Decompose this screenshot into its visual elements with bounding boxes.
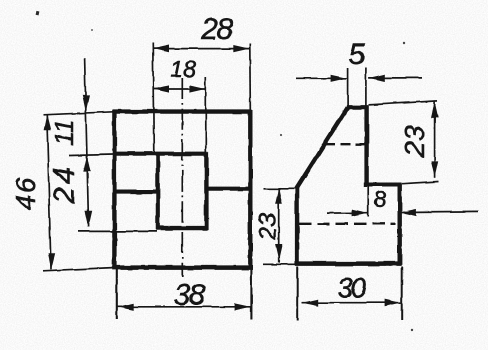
centerline of front view (dash-dot) bbox=[181, 78, 183, 277]
svg-text:38: 38 bbox=[174, 279, 206, 312]
extension line top left for 23 left bbox=[264, 188, 296, 190]
extension line left for 28/18 bbox=[153, 43, 154, 153]
arrowhead 11 down bbox=[82, 95, 89, 111]
scan speck top left bbox=[36, 11, 40, 16]
extension line left for 38 bbox=[116, 269, 118, 320]
front view: inner rectangle left edge bbox=[156, 152, 160, 229]
extension line right for 18 bbox=[205, 77, 207, 152]
dimension line 23 left bbox=[278, 188, 280, 263]
extension line bottom-left for 46 bbox=[43, 268, 113, 271]
extension line right for 5 bbox=[365, 68, 367, 106]
arrowhead 23 left down bbox=[275, 245, 282, 261]
dimension line 30 bbox=[302, 302, 401, 304]
arrowhead 18 left bbox=[153, 85, 169, 92]
extension line left for 30 bbox=[297, 267, 299, 321]
side view: bottom edge bbox=[296, 261, 402, 266]
arrowhead 28 right bbox=[233, 45, 249, 52]
dimension line 5 right tail bbox=[369, 77, 422, 79]
hidden edge lower (dashed) bbox=[299, 223, 396, 225]
svg-text:18: 18 bbox=[170, 56, 196, 82]
front view: right step edge bbox=[206, 187, 252, 191]
side view: left edge bbox=[295, 188, 299, 266]
extension line left for 24 bottom bbox=[78, 230, 157, 232]
dimension line 46 bbox=[47, 114, 51, 269]
svg-text:5: 5 bbox=[348, 38, 365, 71]
dimension line 11/24 vertical bbox=[85, 58, 89, 227]
arrowhead 28 left bbox=[153, 45, 169, 52]
svg-text:30: 30 bbox=[337, 273, 367, 304]
dimension line 18 bbox=[153, 88, 205, 90]
side view: upper right vertical edge bbox=[364, 106, 368, 186]
svg-text:8: 8 bbox=[373, 186, 386, 212]
arrowhead 30 left bbox=[302, 299, 318, 306]
arrowhead 23 right up bbox=[431, 101, 438, 117]
side view: top edge bbox=[346, 105, 368, 109]
front view: outer outline right edge bbox=[248, 110, 252, 269]
svg-text:23: 23 bbox=[254, 213, 281, 242]
svg-text:11: 11 bbox=[49, 119, 79, 146]
dimension line 8 left tail bbox=[327, 212, 368, 214]
extension line left of 24-top edge bbox=[69, 154, 113, 155]
scan speck between views bbox=[280, 134, 282, 136]
svg-text:46: 46 bbox=[10, 176, 41, 211]
scan speck above left view bbox=[91, 29, 93, 31]
arrowhead 24 up bbox=[83, 156, 90, 172]
extension line for 8 left bbox=[367, 187, 369, 217]
front view: upper horizontal visible edge through figure bbox=[113, 152, 207, 156]
extension line top-left for 46 bbox=[43, 112, 113, 115]
arrowhead 30 right bbox=[385, 299, 401, 306]
arrowhead 46 bottom bbox=[48, 253, 55, 269]
arrowhead 5 left (pointing right) bbox=[331, 75, 347, 82]
arrowhead 46 top bbox=[44, 114, 51, 130]
dimension line 23 right bbox=[434, 101, 436, 178]
scan speck near 5 dimension bbox=[403, 42, 405, 44]
arrowhead 38 right bbox=[235, 303, 251, 310]
arrowhead 5 right (pointing left) bbox=[369, 74, 385, 81]
side view: lower right vertical edge bbox=[398, 183, 402, 265]
dimension line 8 right tail bbox=[400, 211, 478, 214]
arrowhead 18 right bbox=[189, 85, 205, 92]
extension line bottom left for 23 left bbox=[264, 263, 297, 265]
arrowhead 23 right down bbox=[431, 161, 438, 177]
front view: outer outline top edge bbox=[113, 109, 252, 113]
dimension line 28 bbox=[153, 48, 250, 50]
front view: inner rectangle bottom edge bbox=[156, 226, 207, 230]
svg-text:24: 24 bbox=[48, 165, 81, 205]
hidden edge upper (dashed) bbox=[326, 143, 365, 145]
scan speck bottom right bbox=[411, 329, 413, 331]
side view: step edge bbox=[364, 182, 402, 186]
arrowhead 38 left bbox=[118, 303, 134, 310]
extension line left for 5 bbox=[347, 69, 349, 106]
arrowhead 23 left up bbox=[275, 188, 282, 204]
svg-text:23: 23 bbox=[399, 125, 430, 158]
front view: left step edge bbox=[113, 190, 159, 194]
extension line top right for 23 bbox=[369, 101, 438, 105]
svg-text:28: 28 bbox=[200, 13, 233, 46]
front view: outer outline left edge bbox=[112, 110, 116, 269]
arrowhead 8 left (pointing right) bbox=[352, 209, 368, 216]
side view: chamfer edge bbox=[296, 108, 348, 190]
extension line right for 30 bbox=[401, 267, 403, 321]
front view: outer outline bottom edge bbox=[113, 265, 253, 270]
arrowhead 8 right (pointing left) bbox=[400, 209, 416, 216]
front view: inner rectangle right edge bbox=[204, 152, 208, 229]
extension line right for 38 bbox=[250, 269, 252, 320]
dimension line 38 bbox=[118, 306, 251, 308]
extension line step right for 23 bbox=[402, 182, 439, 184]
extension above for 28 right bbox=[249, 44, 252, 111]
arrowhead 24 down bbox=[85, 211, 92, 227]
dimension line 5 left tail bbox=[296, 77, 347, 79]
